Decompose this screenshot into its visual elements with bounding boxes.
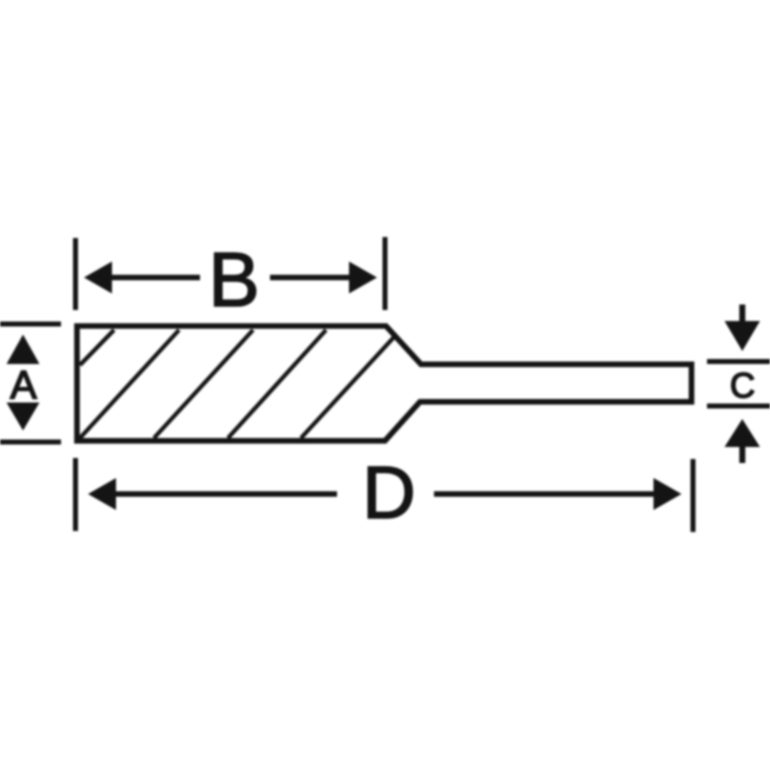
dimension A down arrowhead [7, 403, 40, 431]
dimension B right arrow line [270, 275, 352, 281]
dimension A top extension tick [0, 322, 61, 327]
dimension A bottom extension tick [0, 440, 61, 445]
hatch line 4 [228, 330, 326, 438]
svg-text:D: D [362, 451, 415, 534]
svg-text:A: A [10, 364, 37, 408]
dimension B right arrowhead [349, 262, 377, 294]
hatch line 1 (top-left corner) [80, 330, 114, 365]
hatch line 2 [80, 330, 179, 438]
dimension D right arrow line [434, 491, 657, 497]
dimension D left arrow line [112, 491, 337, 497]
dimension D right arrowhead [654, 478, 682, 510]
dimension A up arrowhead [7, 335, 40, 365]
svg-text:C: C [730, 367, 755, 406]
dimension C top extension tick [707, 359, 770, 364]
hatch line 3 [154, 330, 253, 438]
burr body outline (head with taper and shank) [77, 326, 692, 441]
dimension B left arrow line [108, 275, 200, 281]
dimension B right extension tick [383, 237, 388, 310]
dimension C top arrow stem [739, 305, 745, 324]
dimension D left extension tick [73, 458, 78, 531]
dimension C bottom arrow stem [739, 445, 745, 463]
dimension C top arrowhead [725, 321, 761, 351]
dimension D left arrowhead [88, 478, 116, 510]
hatch line 5 (ends on taper) [301, 336, 395, 438]
dimension C bottom arrowhead [725, 419, 761, 447]
dimension D right extension tick [691, 459, 696, 532]
dimension B left extension tick [73, 238, 78, 310]
dimension C bottom extension tick [707, 404, 770, 409]
dimension B left arrowhead [84, 262, 112, 294]
svg-text:B: B [208, 237, 259, 323]
